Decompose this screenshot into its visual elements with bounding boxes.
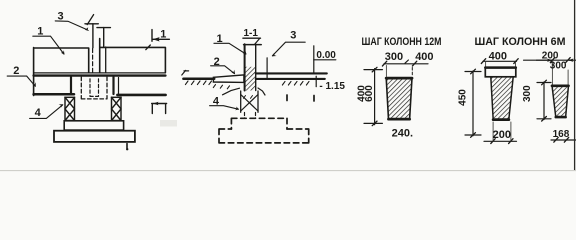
svg-text:1: 1 [37,26,43,38]
svg-text:600: 600 [364,85,375,102]
svg-text:4: 4 [213,95,220,107]
svg-text:0.00: 0.00 [316,50,336,61]
svg-text:300: 300 [522,85,533,102]
svg-text:400: 400 [415,51,433,63]
svg-text:1-1: 1-1 [244,28,259,39]
svg-text:3: 3 [290,30,296,42]
svg-text:2: 2 [214,56,220,68]
svg-text:300: 300 [385,51,403,63]
svg-text:1: 1 [217,33,223,45]
svg-text:240.: 240. [392,128,413,140]
svg-text:400: 400 [489,51,507,63]
svg-text:168: 168 [553,129,570,140]
svg-text:450: 450 [458,89,469,106]
svg-text:300: 300 [550,61,567,72]
svg-text:ШАГ КОЛОНН 6М: ШАГ КОЛОНН 6М [475,36,566,48]
svg-text:4: 4 [35,107,42,119]
svg-text:3: 3 [58,11,64,23]
svg-text:- 1.15: - 1.15 [319,81,345,92]
svg-text:200: 200 [493,129,511,141]
svg-text:1: 1 [160,28,166,40]
svg-text:2: 2 [13,65,19,77]
svg-text:ШАГ КОЛОНН 12М: ШАГ КОЛОНН 12М [362,36,442,48]
